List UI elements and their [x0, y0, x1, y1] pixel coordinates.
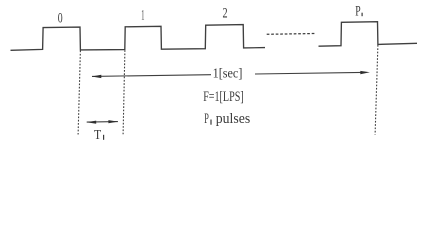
dimension arrow: T1 interval double arrow: [87, 120, 118, 124]
svg-text:F=1[LPS]: F=1[LPS]: [203, 89, 244, 105]
dimension arrow: 1[sec] right half: [255, 71, 370, 74]
wire: pulse train segment with pulse Pi: [319, 22, 418, 47]
svg-text:1[sec]: 1[sec]: [213, 66, 243, 81]
node: dotted reference line at rising edge of pulse 1: [123, 50, 125, 134]
wire: dashed continuation between pulse 2 and pulse Pi: [267, 33, 316, 36]
svg-text:T: T: [94, 127, 102, 142]
svg-text:P: P: [204, 111, 209, 127]
label: subscript i of Pi: [361, 13, 363, 17]
svg-text:P: P: [355, 3, 360, 19]
dimension arrow: 1[sec] left half: [92, 75, 211, 78]
svg-text:pulses: pulses: [216, 111, 251, 127]
value label: subscript i of Pi pulses: [210, 120, 212, 125]
svg-text:2: 2: [223, 6, 228, 22]
node: dotted reference line at falling edge of pulse Pi: [375, 45, 378, 135]
svg-text:0: 0: [58, 11, 63, 27]
wire: pulse train segment with pulses 0,1,2: [11, 25, 266, 51]
node: dotted reference line at falling edge of pulse 0: [78, 51, 80, 135]
label: subscript 1 of T1: [103, 135, 105, 140]
svg-text:1: 1: [141, 8, 144, 24]
